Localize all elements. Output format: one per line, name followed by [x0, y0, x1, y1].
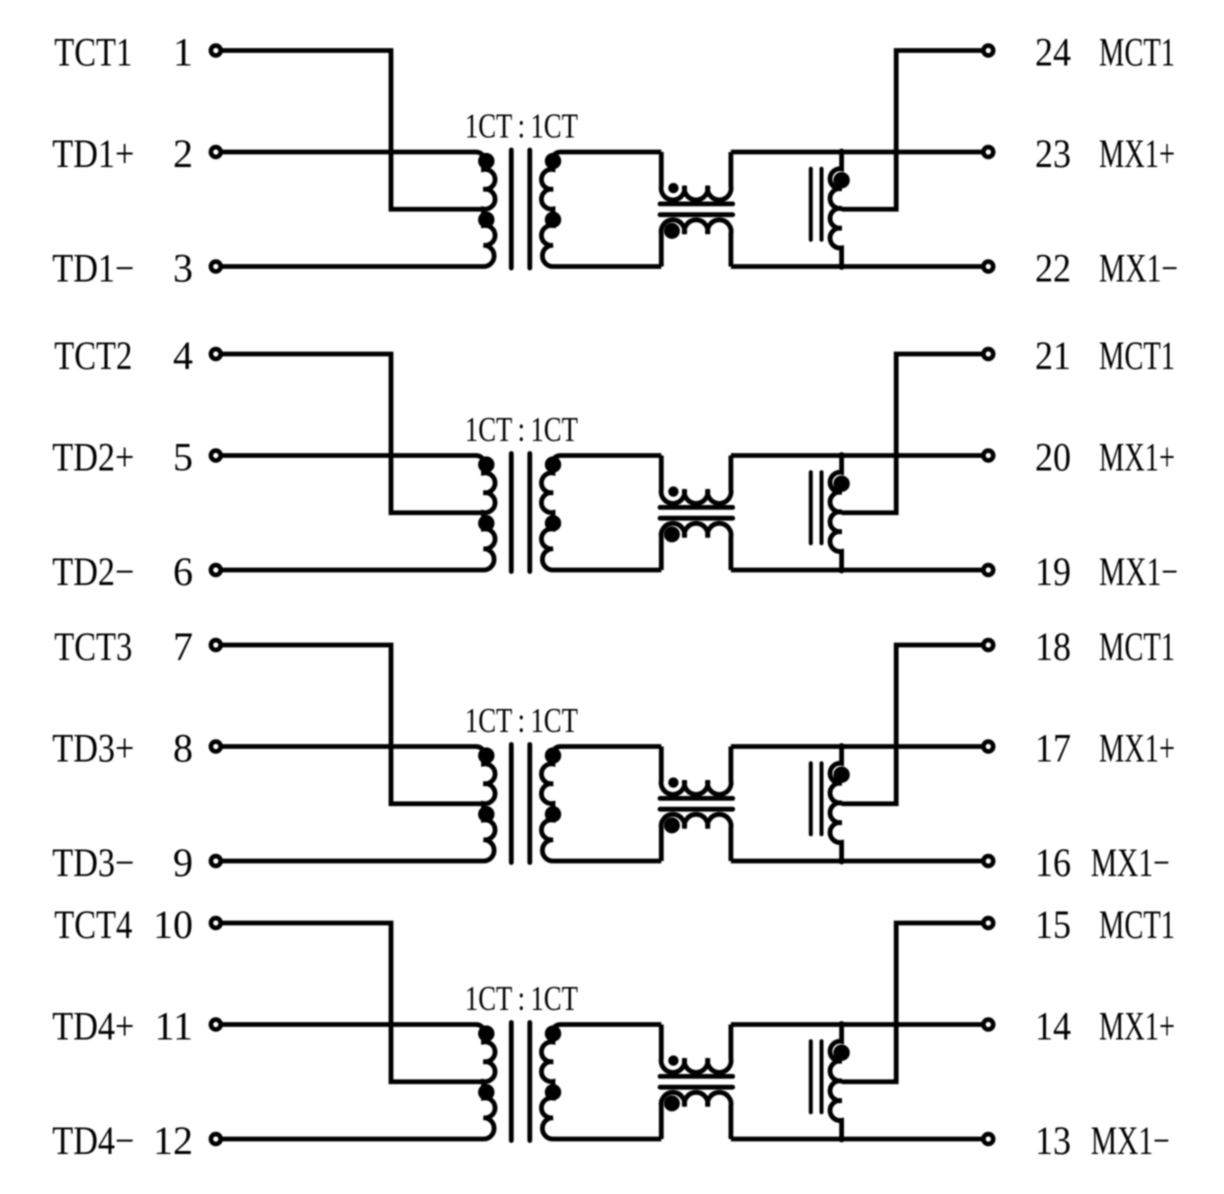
svg-text:1CT : 1CT: 1CT : 1CT [465, 979, 578, 1018]
junction A2 winding top [838, 452, 845, 459]
svg-text:TD3−: TD3− [52, 840, 134, 885]
pin 11 terminal [211, 1020, 221, 1030]
polarity dot T2 primary upper [478, 456, 494, 472]
svg-text:17: 17 [1035, 726, 1071, 771]
wire choke L4 to pin 14 (MX1+) [731, 1022, 982, 1027]
choke L3 top winding [661, 747, 731, 795]
polarity dot T2 secondary upper [545, 456, 561, 472]
transformer T4 secondary winding (wires to choke L4) [541, 1025, 661, 1140]
pin 16 terminal [983, 856, 993, 866]
svg-text:MX1−: MX1− [1091, 840, 1170, 885]
pin 4 terminal [211, 349, 221, 359]
svg-text:MX1−: MX1− [1099, 246, 1178, 291]
wire choke L1 to pin 22 (MX1−) [731, 264, 982, 269]
polarity dot T3 primary lower [478, 806, 494, 822]
svg-text:7: 7 [173, 624, 193, 669]
svg-text:MX1+: MX1+ [1099, 435, 1175, 480]
svg-text:24: 24 [1035, 30, 1071, 75]
svg-text:TD2+: TD2+ [52, 435, 134, 480]
pin 21 terminal [983, 349, 993, 359]
svg-text:TD4−: TD4− [52, 1118, 134, 1163]
polarity dot T3 secondary lower [545, 806, 561, 822]
junction A3 winding top [838, 743, 845, 750]
svg-text:TD1−: TD1− [52, 246, 134, 291]
svg-text:18: 18 [1035, 624, 1071, 669]
wire pin 4 (TCT2) to T2 primary centre tap [222, 354, 483, 513]
choke L1 core [660, 201, 733, 206]
svg-text:MX1−: MX1− [1099, 549, 1178, 594]
svg-text:23: 23 [1035, 131, 1071, 176]
autotransformer A1 winding [830, 152, 842, 267]
pin 5 terminal [211, 451, 221, 461]
autotransformer A3 core [809, 763, 813, 834]
autotransformer A3 winding [830, 747, 842, 862]
autotransformer A2 polarity dot [833, 476, 849, 492]
wire choke L4 to pin 13 (MX1−) [731, 1137, 982, 1142]
svg-text:MX1+: MX1+ [1099, 131, 1175, 176]
autotransformer A2 winding [830, 456, 842, 571]
svg-text:TD4+: TD4+ [52, 1004, 134, 1049]
polarity dot T1 secondary lower [545, 212, 561, 228]
svg-text:5: 5 [173, 435, 193, 480]
svg-text:6: 6 [173, 549, 193, 594]
pin 20 terminal [983, 451, 993, 461]
autotransformer A4 polarity dot [833, 1045, 849, 1061]
wire A4 centre tap to pin 15 (MCT1) [842, 923, 982, 1082]
svg-text:10: 10 [153, 902, 193, 947]
polarity dot T2 secondary lower [545, 515, 561, 531]
svg-text:TCT3: TCT3 [54, 624, 132, 669]
svg-text:MCT1: MCT1 [1099, 30, 1175, 75]
junction A1 winding top [838, 149, 845, 156]
choke L2 top winding [661, 456, 731, 504]
choke L1 top polarity dot [668, 183, 678, 193]
pin 14 terminal [983, 1020, 993, 1030]
svg-text:3: 3 [173, 246, 193, 291]
svg-text:14: 14 [1035, 1004, 1071, 1049]
transformer T4 core [509, 1023, 514, 1141]
pin 6 terminal [211, 565, 221, 575]
svg-text:19: 19 [1035, 549, 1071, 594]
transformer T3 core [509, 745, 514, 863]
wire A1 centre tap to pin 24 (MCT1) [842, 51, 982, 210]
junction A2 winding bottom [838, 567, 845, 574]
choke L1 bottom polarity dot [664, 223, 680, 239]
wire choke L2 to pin 20 (MX1+) [731, 453, 982, 458]
choke L4 bottom winding [661, 1092, 731, 1139]
svg-text:MCT1: MCT1 [1099, 624, 1175, 669]
junction A3 winding bottom [838, 858, 845, 865]
wire pin 1 (TCT1) to T1 primary centre tap [222, 51, 483, 210]
svg-text:TD3+: TD3+ [52, 726, 134, 771]
polarity dot T1 secondary upper [545, 153, 561, 169]
autotransformer A1 core [809, 169, 813, 240]
wire pin 7 (TCT3) to T3 primary centre tap [222, 645, 483, 804]
svg-text:TD2−: TD2− [52, 549, 134, 594]
transformer T3 secondary winding (wires to choke L3) [541, 747, 661, 862]
pin 12 terminal [211, 1134, 221, 1144]
pin 15 terminal [983, 918, 993, 928]
choke L2 core [660, 505, 733, 510]
wire A3 centre tap to pin 18 (MCT1) [842, 645, 982, 804]
polarity dot T4 primary upper [478, 1025, 494, 1041]
svg-text:12: 12 [153, 1118, 193, 1163]
wire choke L2 to pin 19 (MX1−) [731, 568, 982, 573]
wire A2 centre tap to pin 21 (MCT1) [842, 354, 982, 513]
transformer T4 primary winding (with wires from pins 11,12) [222, 1025, 495, 1140]
svg-text:1CT : 1CT: 1CT : 1CT [465, 106, 578, 145]
pin 7 terminal [211, 640, 221, 650]
svg-text:TCT2: TCT2 [54, 333, 132, 378]
polarity dot T1 primary upper [478, 153, 494, 169]
autotransformer A4 core [809, 1041, 813, 1112]
autotransformer A1 polarity dot [833, 172, 849, 188]
pin 2 terminal [211, 147, 221, 157]
svg-text:TCT1: TCT1 [54, 30, 132, 75]
choke L4 core [660, 1074, 733, 1079]
polarity dot T4 secondary lower [545, 1084, 561, 1100]
polarity dot T3 primary upper [478, 747, 494, 763]
transformer T1 primary winding (with wires from pins 2,3) [222, 152, 495, 267]
svg-text:1: 1 [173, 30, 193, 75]
autotransformer A3 polarity dot [833, 767, 849, 783]
transformer T1 core [509, 150, 514, 268]
choke L2 bottom polarity dot [664, 526, 680, 542]
wire choke L3 to pin 16 (MX1−) [731, 859, 982, 864]
wire pin 10 (TCT4) to T4 primary centre tap [222, 923, 483, 1082]
svg-text:16: 16 [1035, 840, 1071, 885]
svg-text:9: 9 [173, 840, 193, 885]
pin 9 terminal [211, 856, 221, 866]
polarity dot T2 primary lower [478, 515, 494, 531]
polarity dot T1 primary lower [478, 212, 494, 228]
pin 22 terminal [983, 262, 993, 272]
svg-text:MX1+: MX1+ [1099, 726, 1175, 771]
choke L1 bottom winding [661, 220, 731, 267]
svg-text:13: 13 [1035, 1118, 1071, 1163]
pin 19 terminal [983, 565, 993, 575]
choke L2 bottom winding [661, 523, 731, 570]
svg-text:MCT1: MCT1 [1099, 333, 1175, 378]
pin 17 terminal [983, 742, 993, 752]
choke L2 top polarity dot [668, 486, 678, 496]
choke L4 bottom polarity dot [664, 1095, 680, 1111]
pin 1 terminal [211, 46, 221, 56]
transformer T3 primary winding (with wires from pins 8,9) [222, 747, 495, 862]
pin 13 terminal [983, 1134, 993, 1144]
choke L4 top polarity dot [668, 1055, 678, 1065]
svg-text:MX1+: MX1+ [1099, 1004, 1175, 1049]
svg-text:TCT4: TCT4 [54, 902, 132, 947]
svg-text:2: 2 [173, 131, 193, 176]
svg-text:11: 11 [154, 1004, 193, 1049]
svg-text:TD1+: TD1+ [52, 131, 134, 176]
autotransformer A2 core [809, 472, 813, 543]
svg-text:8: 8 [173, 726, 193, 771]
pin 8 terminal [211, 742, 221, 752]
svg-text:21: 21 [1035, 333, 1071, 378]
choke L3 bottom polarity dot [664, 817, 680, 833]
junction A1 winding bottom [838, 263, 845, 270]
polarity dot T3 secondary upper [545, 747, 561, 763]
choke L3 core [660, 796, 733, 801]
wire choke L3 to pin 17 (MX1+) [731, 744, 982, 749]
transformer T2 core [509, 454, 514, 572]
junction A4 winding bottom [838, 1136, 845, 1143]
svg-text:MCT1: MCT1 [1099, 902, 1175, 947]
wire choke L1 to pin 23 (MX1+) [731, 150, 982, 155]
autotransformer A4 winding [830, 1025, 842, 1140]
choke L3 top polarity dot [668, 777, 678, 787]
pin 24 terminal [983, 46, 993, 56]
pin 18 terminal [983, 640, 993, 650]
choke L1 top winding [661, 152, 731, 200]
transformer T2 primary winding (with wires from pins 5,6) [222, 456, 495, 571]
transformer T1 secondary winding (wires to choke L1) [541, 152, 661, 267]
svg-text:1CT : 1CT: 1CT : 1CT [465, 701, 578, 740]
pin 23 terminal [983, 147, 993, 157]
transformer T2 secondary winding (wires to choke L2) [541, 456, 661, 571]
svg-text:15: 15 [1035, 902, 1071, 947]
choke L3 bottom winding [661, 814, 731, 861]
svg-text:1CT : 1CT: 1CT : 1CT [465, 410, 578, 449]
junction A4 winding top [838, 1021, 845, 1028]
polarity dot T4 secondary upper [545, 1025, 561, 1041]
pin 10 terminal [211, 918, 221, 928]
svg-text:22: 22 [1035, 246, 1071, 291]
svg-text:20: 20 [1035, 435, 1071, 480]
polarity dot T4 primary lower [478, 1084, 494, 1100]
svg-text:MX1−: MX1− [1091, 1118, 1170, 1163]
svg-text:4: 4 [173, 333, 193, 378]
choke L4 top winding [661, 1025, 731, 1073]
pin 3 terminal [211, 262, 221, 272]
